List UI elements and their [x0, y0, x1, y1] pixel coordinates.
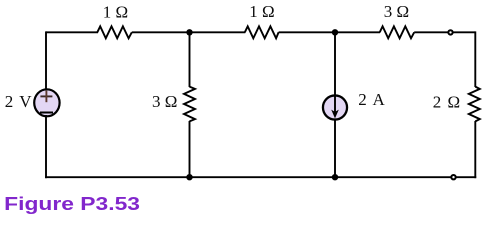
- wire middle vertical 1 lower: [189, 121, 191, 177]
- node A (top, x=189): [186, 29, 192, 35]
- wire top segment 4: [414, 31, 475, 33]
- svg-text:2 V: 2 V: [5, 92, 33, 111]
- wire middle vertical 2 upper (node B down): [334, 32, 336, 96]
- wire middle vertical 1 upper (node A down): [189, 32, 191, 87]
- wire bottom horizontal: [45, 176, 476, 178]
- svg-text:Figure P3.53: Figure P3.53: [4, 193, 140, 214]
- resistor R3 3 ohm (top right): [380, 26, 415, 38]
- svg-text:3 Ω: 3 Ω: [152, 92, 177, 111]
- resistor R5 2 ohm (right vertical): [469, 87, 480, 122]
- node D (bottom, x=335): [332, 174, 338, 180]
- wire top segment 3: [279, 31, 380, 33]
- voltage source V1 2V: [34, 89, 59, 116]
- wire right vertical upper: [474, 31, 476, 87]
- svg-text:1 Ω: 1 Ω: [249, 2, 274, 21]
- node B (top, x=335): [332, 29, 338, 35]
- node C (bottom, x=189): [186, 174, 192, 180]
- resistor R2 1 ohm (top middle): [245, 26, 279, 38]
- wire middle vertical 2 lower: [334, 121, 336, 178]
- resistor R4 3 ohm (middle vertical): [184, 87, 195, 122]
- wire top-left horizontal: [46, 31, 98, 33]
- svg-text:2 Ω: 2 Ω: [433, 92, 461, 111]
- svg-text:2 A: 2 A: [358, 90, 386, 109]
- resistor R1 1 ohm (top left): [97, 26, 132, 38]
- svg-text:1 Ω: 1 Ω: [103, 2, 128, 21]
- wire left vertical lower: [45, 115, 47, 178]
- terminal a (open circle, top right): [448, 30, 452, 34]
- terminal b (open circle, bottom right): [451, 175, 455, 179]
- current source I1 2A: [323, 95, 347, 119]
- wire left vertical upper: [45, 31, 47, 90]
- svg-text:3 Ω: 3 Ω: [384, 2, 409, 21]
- wire top segment 2: [132, 31, 246, 33]
- wire right vertical lower: [474, 121, 476, 178]
